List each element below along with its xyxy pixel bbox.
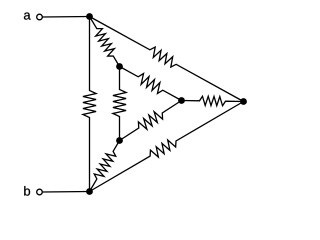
resistor R5 (node B to inner node E)	[90, 141, 120, 192]
node D (junction dot, inner top)	[116, 63, 123, 70]
resistor R6 (inner left side, node D to node E)	[113, 67, 126, 141]
resistor R1 (outer left side, node A to node B)	[83, 17, 96, 192]
terminal b (open circle)	[37, 189, 43, 195]
resistor R2 (outer top side, node A to node C)	[90, 17, 244, 102]
terminal a label	[24, 13, 31, 20]
wire terminal a to node A	[42, 16, 89, 19]
node A (junction dot, top-left)	[86, 13, 93, 20]
resistor R3 (outer bottom side, node B to node C)	[90, 102, 244, 192]
node B (junction dot, bottom-left)	[86, 188, 93, 195]
resistor R9 (node F to node C)	[182, 96, 244, 106]
resistor R8 (inner bottom side, node E to node F)	[120, 101, 182, 141]
terminal b label	[24, 186, 30, 196]
node F (junction dot, inner right)	[178, 97, 185, 104]
wire terminal b to node B	[42, 191, 89, 194]
terminal a (open circle)	[37, 14, 43, 20]
resistor R4 (node A to inner node D)	[90, 17, 120, 67]
node E (junction dot, inner bottom)	[116, 137, 123, 144]
node C (junction dot, right)	[240, 98, 247, 105]
resistor R7 (inner top side, node D to node F)	[120, 67, 182, 101]
